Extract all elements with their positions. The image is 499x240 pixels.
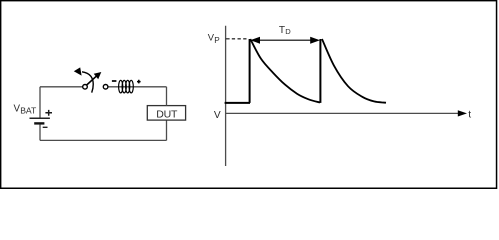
VP tick [226, 38, 230, 40]
svg-text:D: D [285, 27, 291, 36]
svg-text:P: P [214, 36, 220, 45]
graph y-axis [225, 26, 227, 166]
label TD [279, 25, 291, 36]
graph t-axis arrowhead [458, 110, 467, 116]
inductor L1 plus sign [137, 80, 141, 84]
wire top-left vertical [39, 87, 41, 118]
switch S1 terminal left [83, 85, 88, 90]
graph x-axis [226, 112, 459, 114]
battery B1 plate + [30, 117, 50, 119]
waveform rising edge 1 [249, 39, 251, 103]
svg-text:t: t [468, 110, 471, 121]
TD arrow line [257, 39, 314, 41]
svg-text:BAT: BAT [20, 106, 37, 116]
TD arrowhead left [250, 37, 260, 44]
waveform baseline [225, 102, 250, 104]
waveform rising edge 2 [319, 39, 321, 103]
label VP [208, 32, 221, 46]
wire bottom horizontal [40, 139, 167, 141]
wire DUT bottom vertical [166, 120, 168, 140]
inductor L1 coil [119, 80, 134, 93]
battery B1 plate - [34, 122, 44, 124]
wire bottom-left vertical [39, 125, 41, 141]
svg-text:T: T [279, 25, 285, 36]
wire inductor horizontal [108, 86, 167, 88]
TD arrowhead right [310, 37, 320, 44]
label VBAT [14, 104, 38, 116]
switch S1 terminal right [103, 85, 108, 90]
border frame [1, 1, 497, 189]
svg-text:V: V [214, 110, 221, 121]
switch lever [87, 76, 96, 85]
battery - sign [43, 126, 48, 128]
battery + sign [45, 110, 52, 116]
waveform decay 2 [322, 39, 386, 103]
waveform decay 1 [250, 39, 320, 103]
DUT box [147, 106, 185, 121]
switch motion arrowhead [74, 67, 82, 75]
wire top horizontal to switch [40, 86, 83, 88]
wire DUT top vertical [166, 87, 168, 106]
switch lever arrowhead [94, 72, 102, 79]
VP dashed level line [232, 38, 248, 40]
inductor L1 minus sign [112, 80, 117, 82]
switch motion arc [82, 72, 93, 93]
svg-text:DUT: DUT [156, 108, 178, 120]
